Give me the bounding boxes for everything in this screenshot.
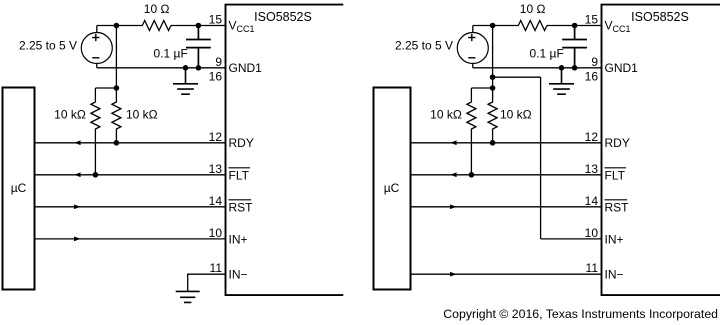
- wire: FLT line: [411, 174, 602, 176]
- svg-text:µC: µC: [11, 181, 27, 195]
- node: junction dot cap bottom: [572, 65, 578, 71]
- svg-text:FLT: FLT: [229, 168, 250, 182]
- wire: RST line: [411, 206, 602, 208]
- node: junction dot cap bottom: [196, 65, 202, 71]
- ground GND A: [173, 68, 198, 94]
- node: junction dot VCC/rail: [490, 23, 496, 29]
- resistor R2 10 kohm (left pull-up): [91, 88, 100, 175]
- svg-text:10 Ω: 10 Ω: [144, 2, 170, 16]
- ground GND B: [176, 291, 200, 302]
- svg-text:IN+: IN+: [229, 232, 248, 246]
- svg-text:11: 11: [210, 261, 223, 275]
- arrow: RST into chip: [450, 204, 457, 209]
- svg-text:GND1: GND1: [605, 61, 639, 75]
- node: junction dot rail/pull-up: [490, 85, 496, 91]
- node: junction dot cap top: [196, 23, 202, 29]
- svg-text:ISO5852S: ISO5852S: [631, 10, 689, 24]
- wire: RST line: [35, 206, 226, 208]
- resistor R6 10 kohm (right pull-up): [488, 88, 497, 143]
- ground GND C: [549, 68, 574, 94]
- svg-text:14: 14: [209, 194, 223, 208]
- wire: IN- line: [411, 273, 602, 275]
- node: junction dot R2/FLT: [93, 172, 99, 178]
- wire: RDY line: [35, 142, 226, 144]
- svg-text:RST: RST: [605, 200, 630, 214]
- resistor R1 10 ohm: [142, 21, 171, 31]
- wire: pull-up top connector: [95, 87, 116, 89]
- resistor R5 10 kohm (left pull-up): [467, 88, 476, 175]
- svg-text:16: 16: [585, 69, 599, 83]
- uC block (right): [374, 88, 411, 290]
- wire: RDY line: [411, 142, 602, 144]
- node: junction dot rail/pull-up: [114, 85, 120, 91]
- wire: VCC1 top rail right segment to pin 15: [171, 25, 226, 27]
- resistor R4 10 ohm: [518, 21, 547, 31]
- node: junction dot gnd symbol: [559, 65, 565, 71]
- wire: pull-up top connector: [471, 87, 492, 89]
- svg-text:10: 10: [585, 226, 599, 240]
- arrow: FLT into uC: [450, 172, 457, 177]
- node: junction dot rail/IN+ branch: [490, 74, 496, 80]
- V2 plus sign: [468, 34, 475, 41]
- svg-text:0.1 µF: 0.1 µF: [154, 47, 188, 61]
- svg-text:IN−: IN−: [229, 268, 248, 282]
- wire: vertical rail from VCC node down to pull-up junction: [492, 26, 494, 89]
- arrow: RDY into uC: [450, 140, 457, 145]
- node: junction dot cap top: [572, 23, 578, 29]
- wire: IN+ line to pin 10: [541, 238, 602, 240]
- wire: VCC1 top rail right segment to pin 15: [547, 25, 602, 27]
- node: junction dot R3/RDY: [114, 140, 120, 146]
- svg-text:RDY: RDY: [605, 136, 630, 150]
- V1 minus sign: [92, 57, 99, 59]
- capacitor C1 0.1 uF: [186, 26, 211, 68]
- svg-text:13: 13: [585, 162, 599, 176]
- svg-text:9: 9: [215, 55, 222, 69]
- svg-text:9: 9: [591, 55, 598, 69]
- uC block (left): [3, 88, 35, 290]
- wire: GND1 rail to pin 9/16: [473, 67, 602, 69]
- svg-text:10 kΩ: 10 kΩ: [126, 107, 158, 121]
- resistor R3 10 kohm (right pull-up): [112, 88, 121, 143]
- wire: V2 bottom stub: [472, 64, 474, 68]
- svg-text:GND1: GND1: [229, 61, 263, 75]
- voltage source V1 (2.25 to 5 V): [81, 33, 112, 64]
- IC U1 ISO5852S body (open right side): [226, 5, 344, 296]
- svg-text:10 Ω: 10 Ω: [520, 2, 546, 16]
- wire: IN+ tie branch vertical: [540, 77, 542, 239]
- svg-text:16: 16: [209, 69, 223, 83]
- arrow: IN+ into chip: [74, 237, 81, 242]
- wire: vertical rail from VCC node down to pull-up junction: [115, 26, 117, 89]
- svg-text:15: 15: [585, 13, 599, 27]
- wire: V2 top stub: [472, 26, 474, 33]
- svg-text:10 kΩ: 10 kΩ: [500, 107, 532, 121]
- svg-text:2.25 to 5 V: 2.25 to 5 V: [395, 39, 453, 53]
- svg-text:13: 13: [209, 162, 223, 176]
- node: junction dot R6/RDY: [490, 140, 496, 146]
- svg-text:10 kΩ: 10 kΩ: [430, 107, 462, 121]
- voltage source V2 (2.25 to 5 V): [457, 33, 488, 64]
- svg-text:0.1 µF: 0.1 µF: [530, 47, 564, 61]
- svg-text:IN−: IN−: [605, 268, 624, 282]
- arrow: RST into chip: [74, 204, 81, 209]
- wire: V1 bottom stub: [96, 64, 98, 68]
- svg-text:11: 11: [586, 261, 599, 275]
- wire: V1 top stub: [96, 26, 98, 33]
- wire: GND1 rail to pin 9/16: [97, 67, 226, 69]
- svg-text:RST: RST: [229, 200, 254, 214]
- V2 minus sign: [468, 57, 475, 59]
- node: junction dot VCC/rail: [114, 23, 120, 29]
- wire: IN+ tie branch horizontal: [493, 76, 541, 78]
- IC U2 ISO5852S body (open right side): [602, 5, 720, 296]
- capacitor C2 0.1 uF: [562, 26, 587, 68]
- node: junction dot R5/FLT: [469, 172, 475, 178]
- V1 plus sign: [92, 34, 99, 41]
- svg-text:12: 12: [209, 130, 223, 144]
- node: junction dot gnd symbol: [183, 65, 189, 71]
- svg-text:FLT: FLT: [605, 168, 626, 182]
- svg-text:RDY: RDY: [229, 136, 254, 150]
- svg-text:µC: µC: [384, 181, 400, 195]
- arrow: RDY into uC: [74, 140, 81, 145]
- svg-text:ISO5852S: ISO5852S: [254, 10, 312, 24]
- svg-text:14: 14: [585, 194, 599, 208]
- svg-text:10 kΩ: 10 kΩ: [54, 107, 86, 121]
- wire: IN+ line: [35, 238, 226, 240]
- svg-text:IN+: IN+: [605, 232, 624, 246]
- wire: VCC1 top rail left segment: [97, 25, 143, 27]
- svg-text:Copyright © 2016, Texas Instru: Copyright © 2016, Texas Instruments Inco…: [443, 307, 718, 321]
- wire: FLT line: [35, 174, 226, 176]
- svg-text:2.25 to 5 V: 2.25 to 5 V: [19, 39, 77, 53]
- wire: IN- to ground: [188, 274, 226, 291]
- svg-text:10: 10: [209, 226, 223, 240]
- arrow: IN- into chip: [450, 272, 457, 277]
- wire: VCC1 top rail left segment: [473, 25, 519, 27]
- svg-text:15: 15: [209, 13, 223, 27]
- svg-text:12: 12: [585, 130, 599, 144]
- arrow: FLT into uC: [74, 172, 81, 177]
